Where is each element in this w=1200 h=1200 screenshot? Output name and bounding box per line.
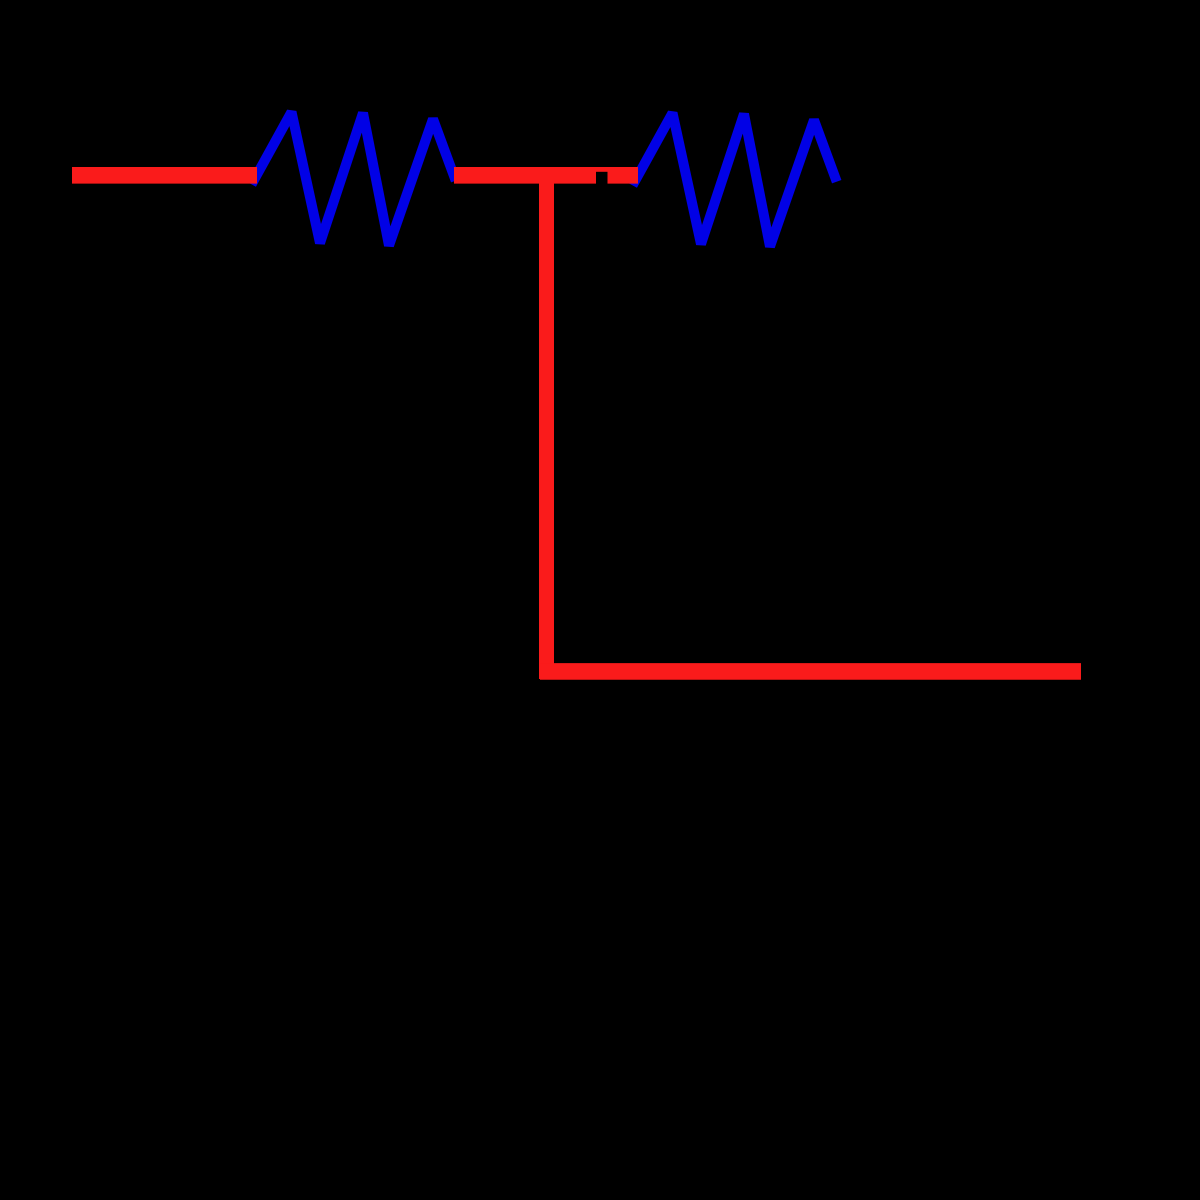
resistor R2 (blue zigzag) — [635, 113, 835, 247]
wire: bottom horizontal segment — [540, 663, 1081, 680]
wire: top-left horizontal segment — [72, 167, 257, 184]
resistor R1 (blue zigzag) — [254, 112, 454, 246]
wire: short stub before R2 — [608, 167, 639, 184]
wire: vertical segment from T-junction down — [539, 167, 554, 679]
wire: horizontal segment between R1 and T-junction — [454, 167, 596, 184]
wire: thin red sliver over notch — [596, 167, 608, 172]
